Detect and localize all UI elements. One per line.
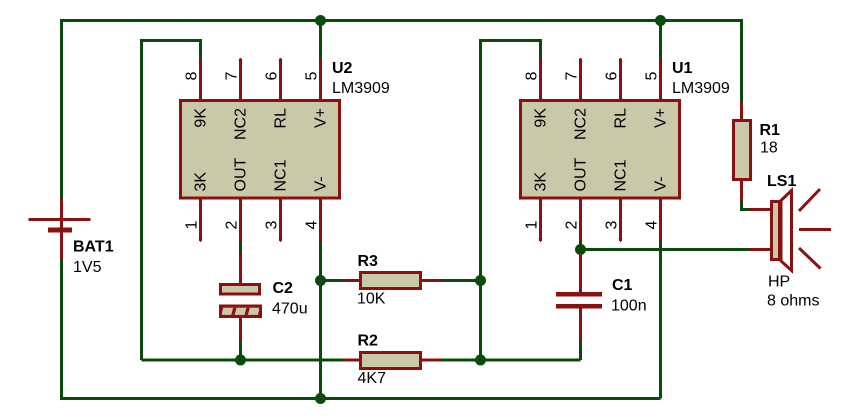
svg-text:R3: R3 — [358, 253, 379, 270]
svg-text:3: 3 — [264, 221, 281, 230]
svg-text:HP: HP — [768, 274, 790, 291]
svg-text:R1: R1 — [760, 122, 781, 139]
svg-text:100n: 100n — [611, 298, 647, 315]
svg-text:6: 6 — [264, 72, 281, 81]
svg-text:7: 7 — [224, 72, 241, 81]
svg-text:U1: U1 — [672, 60, 693, 77]
svg-text:4: 4 — [644, 221, 661, 230]
svg-text:1: 1 — [524, 221, 541, 230]
svg-text:RL: RL — [613, 108, 630, 129]
svg-text:NC2: NC2 — [233, 108, 250, 140]
svg-text:NC1: NC1 — [273, 159, 290, 191]
svg-text:NC2: NC2 — [573, 108, 590, 140]
svg-text:7: 7 — [564, 72, 581, 81]
svg-text:OUT: OUT — [233, 158, 250, 192]
svg-text:8: 8 — [184, 72, 201, 81]
svg-text:1V5: 1V5 — [73, 259, 102, 276]
svg-text:LM3909: LM3909 — [672, 80, 730, 97]
svg-text:V+: V+ — [313, 108, 330, 128]
svg-text:4: 4 — [304, 221, 321, 230]
svg-text:LM3909: LM3909 — [332, 80, 390, 97]
svg-text:3K: 3K — [193, 172, 210, 192]
svg-text:8: 8 — [524, 72, 541, 81]
svg-text:4K7: 4K7 — [358, 370, 387, 387]
svg-text:9K: 9K — [193, 108, 210, 128]
svg-text:BAT1: BAT1 — [73, 239, 114, 256]
svg-text:9K: 9K — [533, 108, 550, 128]
svg-text:RL: RL — [273, 108, 290, 129]
svg-text:3: 3 — [604, 221, 621, 230]
svg-text:C1: C1 — [612, 277, 633, 294]
svg-text:C2: C2 — [273, 280, 294, 297]
svg-text:NC1: NC1 — [613, 159, 630, 191]
svg-text:2: 2 — [224, 221, 241, 230]
svg-text:OUT: OUT — [573, 158, 590, 192]
svg-text:R2: R2 — [358, 333, 379, 350]
svg-text:V-: V- — [653, 176, 670, 191]
svg-text:8 ohms: 8 ohms — [767, 293, 819, 310]
svg-text:V-: V- — [313, 176, 330, 191]
svg-text:LS1: LS1 — [767, 173, 796, 190]
svg-text:5: 5 — [644, 72, 661, 81]
svg-text:6: 6 — [604, 72, 621, 81]
svg-text:1: 1 — [184, 221, 201, 230]
svg-text:18: 18 — [760, 140, 778, 157]
svg-text:5: 5 — [304, 72, 321, 81]
svg-text:10K: 10K — [357, 291, 386, 308]
svg-text:U2: U2 — [332, 60, 353, 77]
svg-text:2: 2 — [564, 221, 581, 230]
svg-text:3K: 3K — [533, 172, 550, 192]
svg-text:470u: 470u — [272, 301, 308, 318]
svg-text:V+: V+ — [653, 108, 670, 128]
